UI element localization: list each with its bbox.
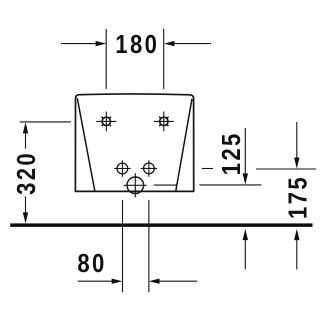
right taper line <box>176 99 192 191</box>
drain hole center <box>124 173 147 197</box>
dim 180 extension left <box>105 29 107 89</box>
dim 125 upper line with down arrow <box>243 128 248 185</box>
dim 180 arrow left <box>61 41 106 46</box>
dim 320 line lower with down arrow <box>23 196 28 223</box>
svg-text:175: 175 <box>284 175 313 219</box>
floor line <box>10 223 312 227</box>
dim 175 extension dash left <box>202 168 213 170</box>
dim 125 interior reference segment <box>154 184 177 186</box>
dim 180 arrow right <box>164 41 211 46</box>
mid hole left <box>114 160 130 177</box>
svg-text:320: 320 <box>12 151 41 195</box>
fixing hole upper-right <box>154 112 174 132</box>
fixture outline <box>75 94 193 191</box>
dim 320 extension top <box>20 121 71 123</box>
svg-text:125: 125 <box>217 131 246 175</box>
dim 320 line upper with up arrow <box>23 122 28 148</box>
fixing hole upper-left <box>96 112 116 132</box>
svg-text:80: 80 <box>77 249 106 278</box>
dim 80 arrow left <box>78 279 123 284</box>
dim 80 extension left <box>122 200 124 292</box>
dim 125 lower line with up arrow <box>243 229 248 270</box>
dim 80 extension right <box>148 200 150 292</box>
svg-text:180: 180 <box>115 30 159 59</box>
left taper line <box>77 98 95 191</box>
mid hole right <box>141 160 157 177</box>
dim 180 extension right <box>163 29 165 89</box>
dim 175 lower line with up arrow <box>294 229 299 270</box>
dim 175 upper line with down arrow <box>294 122 299 169</box>
dim 175 extension line right <box>256 168 316 170</box>
dim 80 arrow right <box>149 279 197 284</box>
dim 125 extension line <box>199 184 261 186</box>
